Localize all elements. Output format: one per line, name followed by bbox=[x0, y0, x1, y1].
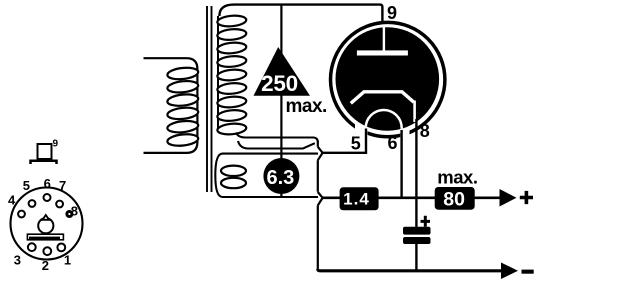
output + symbol bbox=[520, 191, 533, 204]
svg-text:6: 6 bbox=[388, 133, 398, 153]
svg-text:4: 4 bbox=[8, 193, 16, 208]
heater winding turns bbox=[221, 166, 246, 189]
transformer 6.3V heater winding (hollow outline) bbox=[215, 154, 222, 197]
indicator: 6.3 V heater voltage disc bbox=[263, 158, 299, 194]
socket alignment bar bbox=[27, 234, 63, 240]
transformer T1 primary winding turns bbox=[167, 66, 199, 147]
tube V1 anode top-cap lead (inside) bbox=[383, 27, 385, 52]
svg-text:8: 8 bbox=[71, 204, 78, 219]
socket pin 7 hole bbox=[56, 201, 63, 208]
socket pin 4 hole bbox=[18, 211, 25, 218]
socket centre spigot bbox=[38, 218, 53, 233]
socket pin 6 hole bbox=[44, 194, 51, 201]
svg-text:1.4: 1.4 bbox=[343, 189, 370, 208]
wire: 1.4 box to 80 box bbox=[378, 197, 436, 200]
value box 80 (max output mA) bbox=[435, 187, 475, 210]
tube V1 envelope ring bbox=[331, 22, 445, 136]
wire: capacitor to negative rail bbox=[415, 243, 417, 271]
capacitor C1 polarity + bbox=[421, 216, 431, 227]
tube V1 envelope fill bbox=[336, 27, 440, 131]
socket pin 3 hole bbox=[28, 243, 36, 251]
node: crimp junction lower (heater lead to 1.4 box) bbox=[318, 192, 323, 269]
indicator: 250 V max triangle bbox=[254, 47, 311, 96]
transformer T1 primary winding top lead bbox=[144, 58, 198, 69]
wire: negative rail (bottom) bbox=[318, 269, 503, 271]
top cap symbol (pin 9) bbox=[38, 144, 52, 159]
svg-text:7: 7 bbox=[59, 178, 66, 193]
output arrow − bbox=[501, 263, 518, 280]
tube socket (underside view) outline bbox=[11, 188, 83, 260]
wire: pin 6 down to 1.4 wire bbox=[400, 130, 402, 198]
capacitor C1 (reservoir electrolytic) top plate bbox=[403, 227, 431, 235]
svg-text:6: 6 bbox=[44, 176, 51, 191]
svg-text:6.3: 6.3 bbox=[266, 167, 294, 189]
wire: pin 8 (cathode) down to capacitor bbox=[415, 119, 417, 228]
svg-text:80: 80 bbox=[443, 188, 465, 210]
svg-text:5: 5 bbox=[351, 133, 361, 153]
socket pin 8 hole (marked) bbox=[65, 210, 73, 218]
transformer T1 primary winding bottom lead bbox=[144, 142, 198, 153]
transformer HT secondary winding turns bbox=[217, 15, 247, 136]
transformer T1 primary winding spine bbox=[196, 68, 198, 143]
svg-text:8: 8 bbox=[420, 121, 430, 141]
wire: crimp to 1.4 box bbox=[323, 197, 340, 200]
node: crimp junction upper (heater lead to pin 5) bbox=[318, 141, 323, 192]
socket pin 5 hole bbox=[29, 200, 36, 207]
output − symbol bbox=[522, 270, 534, 274]
capacitor C1 bottom plate bbox=[403, 237, 431, 244]
tube V1 cathode chevron bbox=[351, 92, 414, 104]
svg-text:3: 3 bbox=[14, 252, 21, 267]
svg-text:9: 9 bbox=[387, 3, 397, 23]
svg-text:9: 9 bbox=[53, 139, 59, 150]
transformer HT secondary hollow bottom lead bbox=[236, 133, 318, 143]
svg-text:2: 2 bbox=[42, 258, 49, 273]
svg-text:max.: max. bbox=[437, 166, 477, 187]
output arrow + bbox=[500, 189, 517, 207]
wire: 80 box to + output arrow bbox=[474, 197, 502, 200]
svg-text:1: 1 bbox=[64, 252, 71, 267]
socket pin 2 hole bbox=[43, 247, 51, 255]
socket pin 1 hole bbox=[57, 244, 65, 252]
wire: pin 5 to heater winding bbox=[323, 129, 366, 153]
tube V1 cathode stub to pin 8 bbox=[413, 101, 416, 123]
svg-text:5: 5 bbox=[23, 178, 30, 193]
transformer HT secondary winding spine bbox=[217, 16, 219, 130]
wire: HT centre line from top wire down through 250 triangle to winding lead bbox=[280, 4, 282, 197]
wire: transformer secondary top lead to tube top cap bbox=[219, 5, 382, 23]
tube V1 anode plate bbox=[357, 50, 408, 55]
value box 1.4 (heater dropper) bbox=[340, 187, 379, 210]
svg-text:250: 250 bbox=[261, 71, 298, 96]
transformer core laminations bbox=[206, 6, 208, 192]
svg-text:max.: max. bbox=[286, 96, 327, 117]
